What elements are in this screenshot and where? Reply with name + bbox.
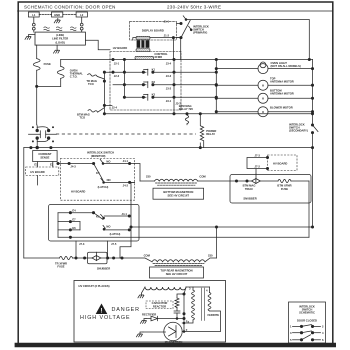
contact K4 moving [94, 164, 104, 181]
svg-text:NO: NO [106, 224, 110, 228]
svg-text:TCO: TCO [88, 82, 94, 86]
wire top xfmr right vertical [216, 227, 218, 258]
svg-text:J1-2: J1-2 [164, 34, 170, 38]
svg-text:RECTIFIER: RECTIFIER [142, 313, 156, 317]
wire right tie vertical x174 [173, 60, 175, 114]
row out 1 [104, 215, 129, 217]
danger triangle [96, 304, 108, 315]
line filter choke beads [44, 27, 50, 31]
terminal L2 [76, 12, 87, 17]
switch row 2 [293, 332, 301, 334]
fuse BTM xfmr [278, 179, 291, 182]
interlock switch secondary [311, 124, 313, 126]
wire bottom antenna motor row [216, 97, 258, 99]
control transformer core [137, 40, 150, 48]
svg-text:J4-3: J4-3 [70, 164, 76, 168]
wire out to return bus [36, 138, 38, 148]
svg-text:MAGNETRON: MAGNETRON [165, 340, 183, 344]
svg-text:COM: COM [144, 254, 151, 258]
display board dashed box [130, 21, 177, 40]
ground magnetron [136, 332, 142, 337]
HV rail from secondary [184, 287, 210, 319]
svg-text:TOP REAR MAGNETRON: TOP REAR MAGNETRON [160, 269, 192, 273]
capacitor reactor dashed box [146, 301, 173, 309]
svg-text:(NOT ON ALL MODELS): (NOT ON ALL MODELS) [271, 64, 301, 68]
wire HV board down stub [37, 176, 39, 186]
interlock switch schematic table [289, 302, 326, 343]
oven thermal cutout [60, 60, 62, 67]
triac BTM mag [252, 179, 261, 184]
wire to triac box [198, 180, 237, 182]
border bottom thick edge [17, 343, 334, 347]
svg-text:ANTENNA MOTOR: ANTENNA MOTOR [270, 80, 294, 84]
svg-text:J7-5: J7-5 [111, 242, 117, 246]
rail to Fa F [182, 319, 184, 332]
svg-text:K2: K2 [152, 80, 156, 84]
wire vertical feed x216 [215, 60, 217, 113]
svg-text:SEE HV CIRCUIT: SEE HV CIRCUIT [166, 272, 188, 276]
wire triac gate to HV board [247, 158, 268, 175]
wire K4 NO to bottom xfmr [135, 164, 140, 182]
wire bottom bus of ladder [104, 113, 312, 115]
svg-text:TCO: TCO [79, 116, 85, 120]
node resistor top tie [177, 294, 184, 298]
wire left branch down to monitor switch [36, 86, 38, 124]
wire J1-1 to interlock primary [176, 23, 181, 25]
HV CIRCUIT box [74, 281, 226, 343]
svg-text:COM: COM [199, 174, 206, 178]
svg-text:J3-4: J3-4 [166, 61, 172, 65]
resistor bleed [175, 298, 179, 308]
current sense board box [33, 151, 57, 162]
interlock switch primary [180, 22, 182, 24]
svg-text:Fa: Fa [186, 319, 190, 323]
svg-text:(SECONDARY): (SECONDARY) [289, 128, 308, 132]
wire interlock primary to right rail [186, 20, 309, 60]
svg-text:SNUBBER: SNUBBER [243, 196, 256, 200]
svg-text:E4: E4 [72, 209, 76, 213]
motor bottom antenna [258, 93, 268, 103]
svg-text:FUSE: FUSE [44, 62, 51, 66]
motor blower [258, 107, 268, 117]
row 3 wire K3 [124, 96, 146, 98]
fuse TR xfmr [60, 256, 73, 259]
diode rectifier [151, 316, 158, 321]
HV board small box right [268, 155, 298, 171]
node J1-2 tie [172, 36, 174, 38]
terminal GND [52, 12, 63, 17]
wire secondary left leg to ground [142, 287, 146, 293]
wire blower motor row [216, 111, 258, 113]
svg-text:K5: K5 [96, 215, 100, 219]
wire return bus y147 [24, 147, 313, 149]
interlock switch monitor block [29, 124, 57, 149]
wire vertical to bus from J1-2 [172, 38, 174, 60]
row 1 wire K1 [104, 71, 146, 73]
right side: motors [215, 60, 313, 117]
svg-text:E2: E2 [50, 162, 54, 166]
svg-text:E6: E6 [72, 226, 76, 230]
title separator line [18, 10, 334, 12]
wire xfmr top to J1-2 line [150, 37, 181, 39]
transformer primary coil bottom mag [155, 179, 198, 181]
svg-text:LINE FILTER: LINE FILTER [52, 37, 68, 41]
svg-text:HV BOARD: HV BOARD [273, 162, 287, 166]
svg-text:RELAY 720: RELAY 720 [179, 107, 194, 111]
control transformer bottom coil [136, 49, 150, 52]
top magnetron circuit box [150, 267, 204, 278]
wire vertical from primary switch to bus [180, 38, 182, 60]
wire vertical x104 [103, 72, 105, 114]
svg-text:XFMR: XFMR [154, 55, 162, 59]
svg-text:HV BOARD: HV BOARD [113, 46, 127, 50]
wire filter output right to HV board [85, 40, 110, 50]
svg-text:J1-1: J1-1 [164, 20, 170, 24]
svg-text:L1: L1 [32, 13, 36, 17]
svg-text:J7-2: J7-2 [255, 164, 261, 168]
svg-text:CURRENT: CURRENT [38, 152, 51, 156]
wire L2 stem with connector circles [81, 17, 83, 23]
svg-text:J3-3: J3-3 [166, 74, 172, 78]
wire mid horizontal y227 [131, 226, 313, 228]
wires filament to magnetron [184, 311, 221, 332]
bottom feed wire y256 with TR fuse and triac [24, 252, 152, 263]
svg-text:J2-3: J2-3 [114, 74, 120, 78]
arc link upper [37, 127, 48, 131]
row 2 wire K2 [113, 84, 146, 86]
svg-text:FUSE: FUSE [281, 187, 288, 191]
wire top antenna motor row [216, 84, 258, 86]
row out 2 [105, 229, 130, 231]
bottom magnetron transformer [140, 179, 237, 185]
BTM mag relay coil [185, 114, 188, 125]
wire dashed between terminals [39, 14, 51, 16]
K5 ladder box [49, 205, 140, 242]
HV transformer secondary coil [142, 287, 187, 293]
svg-text:HV BOARD: HV BOARD [71, 190, 85, 194]
svg-text:230: 230 [208, 254, 213, 258]
ground rectifier [140, 319, 146, 324]
node bus junctions [112, 58, 114, 60]
contact K1 [147, 69, 149, 75]
magnetron tube [143, 319, 185, 341]
node monitor contacts [36, 129, 39, 132]
wire oven light row [216, 68, 258, 70]
svg-text:NO: NO [107, 178, 111, 182]
bottom magnetron thermal cutout branch [88, 108, 104, 113]
wire K4 NO out [104, 163, 135, 165]
svg-text:J4-2: J4-2 [123, 184, 129, 188]
svg-text:K4: K4 [96, 171, 100, 175]
HV board dashed box [110, 52, 181, 111]
svg-text:REACTOR: REACTOR [153, 304, 166, 308]
svg-text:DANGER: DANGER [112, 307, 140, 313]
bottom magnetron circuit box [153, 188, 204, 199]
wire top bus [61, 59, 313, 61]
svg-text:(LINE): (LINE) [56, 33, 64, 37]
svg-text:SNUBBER: SNUBBER [97, 267, 110, 271]
svg-text:GND: GND [54, 13, 60, 17]
svg-text:!: ! [100, 308, 102, 315]
svg-text:L2: L2 [80, 13, 84, 17]
actuator stubs [29, 133, 57, 135]
switch row 3 open [293, 339, 301, 341]
oven light lamp [258, 64, 268, 74]
svg-text:(PRIMARY): (PRIMARY) [193, 31, 207, 35]
chassis ground left of line filter [25, 35, 31, 40]
wire cap bottom tie [177, 318, 184, 320]
svg-text:(MONITOR): (MONITOR) [91, 154, 106, 158]
ground below line filter [53, 48, 59, 53]
svg-text:FERRITE: FERRITE [208, 313, 220, 317]
svg-text:C.T.O.: C.T.O. [70, 75, 78, 79]
triac TR mag [88, 252, 108, 263]
BTM triac snubber box [230, 174, 311, 237]
dashed door linkage line [56, 133, 196, 135]
svg-text:FUSE: FUSE [57, 265, 64, 269]
diode rectifier wire [146, 318, 151, 320]
left jog [58, 213, 80, 238]
contact plunger bars [40, 131, 45, 138]
wire right bus vertical [312, 60, 314, 126]
svg-text:RELAY: RELAY [206, 132, 215, 136]
svg-text:J4-1: J4-1 [123, 159, 129, 163]
svg-text:DOOR CLOSED: DOOR CLOSED [297, 319, 317, 323]
wire K4 common [57, 163, 94, 165]
power relay coil [200, 114, 203, 148]
svg-text:230: 230 [146, 174, 151, 178]
wire to top xfmr [122, 258, 152, 262]
wire filter output left [36, 45, 38, 59]
row E6 [58, 229, 80, 231]
wire filter bottom to ground [56, 45, 58, 48]
capacitor HV [174, 307, 180, 318]
svg-text:K1: K1 [152, 67, 156, 71]
svg-text:J7-3: J7-3 [255, 153, 261, 157]
svg-text:E7: E7 [72, 218, 76, 222]
svg-text:230-240V 50Hz 3-WIRE: 230-240V 50Hz 3-WIRE [167, 5, 221, 10]
svg-text:J3-2: J3-2 [166, 86, 172, 90]
ground below GND terminal [54, 18, 60, 23]
wire J1-2 from display board [176, 37, 181, 39]
row E4 [58, 212, 94, 214]
line filter box [35, 32, 85, 45]
svg-text:K3: K3 [152, 93, 156, 97]
contact K3 [147, 94, 149, 100]
wire dashed between terminals [63, 14, 76, 16]
svg-text:BLOWER MOTOR: BLOWER MOTOR [270, 106, 293, 110]
svg-text:SCHEMATIC: SCHEMATIC [299, 311, 315, 315]
control transformer T1 primary coil [136, 36, 150, 39]
wire left feed vertical x124 [123, 60, 125, 98]
wire stubs from K5 box bottom [75, 241, 77, 258]
wire xfmr left stub [133, 38, 136, 40]
wire K4 NC out [104, 181, 134, 183]
wire fuse to junction [36, 70, 38, 86]
wire mid horizontal y237 [58, 236, 309, 238]
svg-text:DISPLAY BOARD: DISPLAY BOARD [142, 29, 164, 33]
terminal L1 [28, 12, 39, 17]
contact K2 [147, 82, 149, 88]
control transformer secondary coil on bus [135, 56, 154, 59]
fuse F1 [33, 59, 40, 71]
svg-text:J2-1: J2-1 [114, 61, 120, 65]
svg-text:(LOAD): (LOAD) [55, 40, 65, 44]
wire left drop x24 [23, 148, 25, 258]
svg-text:SEE HV CIRCUIT: SEE HV CIRCUIT [168, 193, 190, 197]
K4 relay board area [60, 159, 134, 201]
svg-text:J2-4: J2-4 [112, 106, 118, 110]
wire L1 stem with connector circles [33, 17, 35, 23]
svg-text:J7-3: J7-3 [79, 242, 85, 246]
svg-text:SENSE: SENSE [40, 156, 49, 160]
svg-text:(LATCH): (LATCH) [98, 185, 109, 189]
top magnetron thermal cutout branch [88, 74, 105, 79]
motor top antenna [258, 80, 268, 90]
HV transformer filament winding [184, 287, 221, 332]
HV board dashed box lower-left [26, 167, 59, 176]
svg-text:(LATCH): (LATCH) [110, 232, 121, 236]
svg-text:SCHEMATIC CONDITION: DOOR OPEN: SCHEMATIC CONDITION: DOOR OPEN [24, 5, 116, 10]
svg-text:NO: NO [106, 159, 110, 163]
top magnetron transformer [152, 258, 217, 266]
row E7 [58, 221, 80, 223]
wire to left chassis ground [29, 34, 35, 36]
wire in from fuse line [36, 124, 39, 130]
svg-text:HIGH VOLTAGE: HIGH VOLTAGE [80, 315, 130, 321]
svg-text:ANTENNA MOTOR: ANTENNA MOTOR [270, 92, 294, 96]
arc link lower [37, 138, 48, 142]
svg-text:HV BOARD: HV BOARD [30, 170, 44, 174]
wire secondary down [312, 133, 314, 227]
ground HV secondary [138, 293, 144, 298]
wire magnetron cathode [143, 331, 166, 333]
switch row 1 [293, 325, 301, 327]
svg-text:HV CIRCUIT (2 PLACES): HV CIRCUIT (2 PLACES) [79, 284, 110, 288]
wire K4 NC down [120, 182, 135, 258]
contact K5 [94, 213, 104, 220]
svg-text:BOTTOM MAGNETRON: BOTTOM MAGNETRON [163, 190, 193, 194]
svg-text:TRIAC: TRIAC [245, 187, 253, 191]
K relay ladder rows [103, 60, 217, 114]
svg-text:J3-1: J3-1 [166, 99, 172, 103]
svg-text:J4-1: J4-1 [122, 212, 128, 216]
wire E1 E2 stubs [37, 162, 39, 167]
node fuse junction [36, 85, 38, 87]
wire primary row [140, 180, 155, 182]
wire junction to thermal cutout [37, 85, 61, 87]
